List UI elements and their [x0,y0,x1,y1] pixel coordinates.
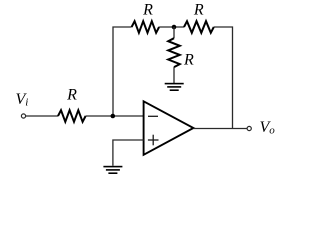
resistor R (feedback, right) [184,2,214,33]
resistor R (shunt to ground) [168,38,194,68]
ground (below shunt resistor) [165,83,184,91]
wire: top middle between resistors [159,26,184,28]
svg-text:R: R [66,87,77,104]
wire: input resistor to op-amp inverting input [86,115,144,117]
wire: top feedback left segment [113,27,132,116]
wire: Vi terminal to input resistor [26,115,58,117]
svg-text:R: R [183,52,194,69]
terminal Vi [16,91,29,118]
resistor R (input) [58,87,86,122]
wire: top junction down to resistor R (shunt) [173,27,175,38]
svg-text:R: R [193,2,204,19]
op-amp U1 [144,101,194,155]
svg-text:R: R [142,2,153,19]
ground (non-inverting input) [103,166,122,174]
wire: shunt resistor to ground [173,67,175,83]
terminal Vo [247,119,275,137]
wire: op-amp output to Vo terminal [193,128,247,130]
node: top junction dot [172,25,177,30]
wire: non-inverting input to ground [113,140,144,166]
node: inverting input junction dot [111,114,116,119]
wire: top feedback right segment down to output [214,27,233,129]
resistor R (feedback, left) [132,2,160,33]
